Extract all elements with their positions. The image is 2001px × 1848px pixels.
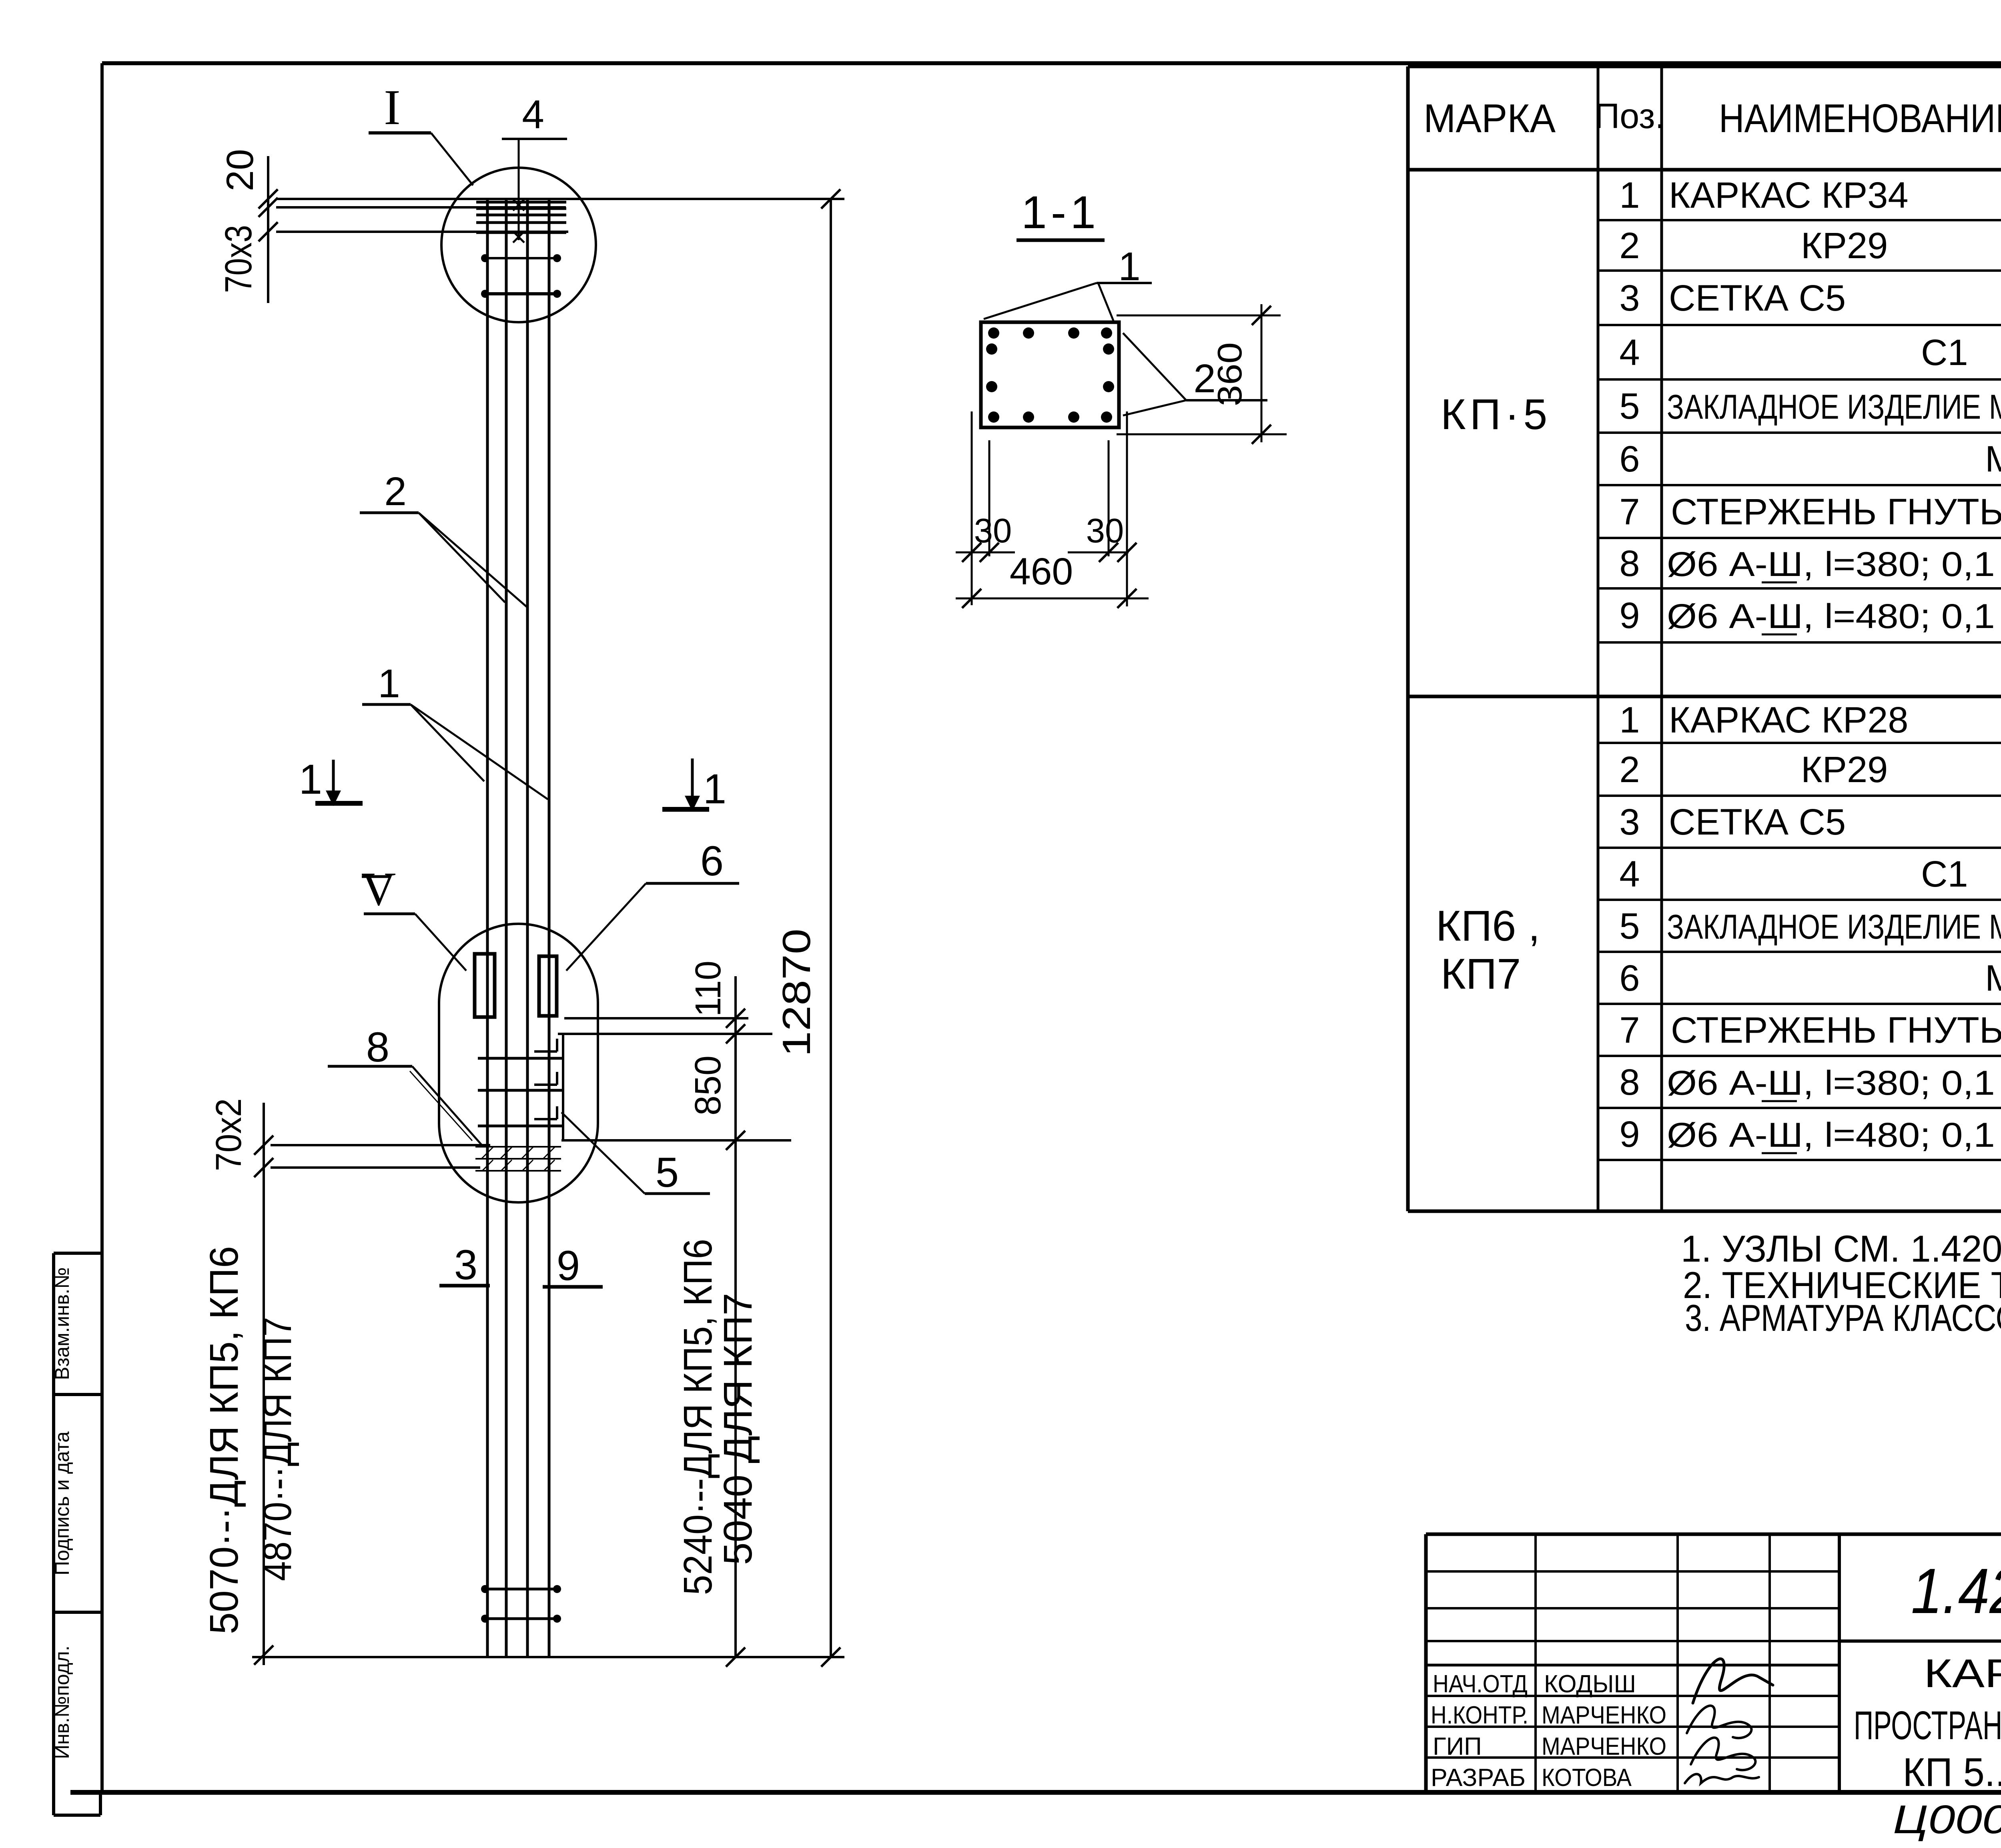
svg-text:1. УЗЛЫ СМ. 1.420.1-32.2-2У: 1. УЗЛЫ СМ. 1.420.1-32.2-2У: [1681, 1228, 2001, 1270]
svg-text:I: I: [384, 80, 401, 135]
svg-text:СЕТКА С5: СЕТКА С5: [1669, 278, 1846, 319]
svg-text:С1: С1: [1921, 332, 1968, 373]
svg-text:МАРЧЕНКО: МАРЧЕНКО: [1542, 1702, 1666, 1729]
svg-text:КП 5... КП 7: КП 5... КП 7: [1903, 1750, 2001, 1795]
svg-text:850: 850: [688, 1055, 728, 1116]
svg-text:V: V: [361, 862, 396, 915]
svg-text:3. АРМАТУРА КЛАССОВ А-Ш,А-I ПО: 3. АРМАТУРА КЛАССОВ А-Ш,А-I ПО ГОСТ 5781…: [1685, 1297, 2001, 1339]
svg-text:МАРЧЕНКО: МАРЧЕНКО: [1542, 1733, 1666, 1760]
svg-text:4: 4: [1619, 332, 1640, 373]
svg-text:30: 30: [1086, 512, 1124, 550]
svg-text:КР29: КР29: [1801, 749, 1888, 790]
svg-text:20: 20: [219, 149, 261, 191]
svg-text:Поз.: Поз.: [1594, 96, 1665, 136]
svg-text:5240·--ДЛЯ КП5, КП6: 5240·--ДЛЯ КП5, КП6: [676, 1239, 720, 1595]
svg-text:460: 460: [1010, 550, 1073, 593]
svg-text:3: 3: [1619, 802, 1640, 843]
svg-text:КАРКАС: КАРКАС: [1924, 1651, 2001, 1696]
svg-text:Ø6 А-Ш, l=380; 0,1 КГ: Ø6 А-Ш, l=380; 0,1 КГ: [1667, 1064, 2001, 1102]
svg-text:Подпись и дата: Подпись и дата: [51, 1431, 73, 1575]
svg-text:9: 9: [1619, 595, 1640, 636]
svg-text:КАРКАС КР28: КАРКАС КР28: [1669, 700, 1909, 740]
svg-text:РАЗРАБ: РАЗРАБ: [1431, 1764, 1526, 1792]
svg-text:СТЕРЖЕНЬ ГНУТЫЙ: СТЕРЖЕНЬ ГНУТЫЙ: [1671, 491, 2001, 532]
svg-text:КП6 ,: КП6 ,: [1436, 901, 1540, 950]
svg-text:4: 4: [1619, 854, 1640, 895]
svg-text:КОТОВА: КОТОВА: [1542, 1764, 1632, 1792]
svg-text:ЗАКЛАДНОЕ ИЗДЕЛИЕ МН6: ЗАКЛАДНОЕ ИЗДЕЛИЕ МН6: [1667, 388, 2001, 426]
svg-text:70x3: 70x3: [217, 225, 260, 293]
svg-text:Ц00071-02: Ц00071-02: [1893, 1797, 2001, 1842]
svg-text:9: 9: [1619, 1114, 1640, 1155]
svg-text:70x2: 70x2: [209, 1098, 249, 1171]
svg-text:Инв.№подл.: Инв.№подл.: [51, 1645, 73, 1759]
svg-text:6: 6: [1619, 439, 1640, 480]
svg-text:1: 1: [378, 661, 400, 706]
svg-text:СТЕРЖЕНЬ ГНУТЫЙ: СТЕРЖЕНЬ ГНУТЫЙ: [1671, 1009, 2001, 1051]
svg-text:5: 5: [656, 1149, 679, 1196]
svg-text:Взам.инв.№: Взам.инв.№: [51, 1267, 73, 1380]
svg-text:МАРКА: МАРКА: [1424, 96, 1556, 141]
svg-text:30: 30: [974, 512, 1012, 550]
svg-text:МН32: МН32: [1985, 439, 2001, 480]
svg-text:Ø6 А-Ш, l=380; 0,1 КГ: Ø6 А-Ш, l=380; 0,1 КГ: [1667, 545, 2001, 584]
svg-text:С1: С1: [1921, 854, 1968, 895]
svg-text:7: 7: [1619, 492, 1640, 532]
svg-text:1: 1: [1619, 175, 1640, 216]
svg-text:1-1: 1-1: [1021, 187, 1100, 238]
svg-text:3: 3: [454, 1242, 477, 1288]
svg-text:8: 8: [366, 1024, 389, 1071]
svg-text:8: 8: [1619, 543, 1640, 584]
svg-text:2: 2: [1619, 749, 1640, 790]
svg-text:НАИМЕНОВАНИЕ: НАИМЕНОВАНИЕ: [1719, 96, 2001, 141]
svg-text:1.420.1-32. 2-2 - 03: 1.420.1-32. 2-2 - 03: [1911, 1555, 2001, 1627]
svg-text:4870·-·ДЛЯ КП7: 4870·-·ДЛЯ КП7: [255, 1317, 300, 1581]
svg-text:КП7: КП7: [1441, 949, 1521, 998]
svg-text:8: 8: [1619, 1062, 1640, 1103]
svg-text:ЗАКЛАДНОЕ ИЗДЕЛИЕ МН6: ЗАКЛАДНОЕ ИЗДЕЛИЕ МН6: [1667, 908, 2001, 946]
svg-text:3: 3: [1619, 278, 1640, 319]
svg-text:Ø6 А-Ш, l=480; 0,1 КГ: Ø6 А-Ш, l=480; 0,1 КГ: [1667, 597, 2001, 636]
svg-text:1: 1: [1619, 700, 1640, 740]
svg-text:5: 5: [1619, 386, 1640, 427]
svg-text:2: 2: [1619, 225, 1640, 266]
svg-text:КР29: КР29: [1801, 225, 1888, 266]
svg-text:Ø6 А-Ш, l=480; 0,1 КГ: Ø6 А-Ш, l=480; 0,1 КГ: [1667, 1116, 2001, 1154]
svg-text:МН32: МН32: [1985, 958, 2001, 999]
svg-text:КП·5: КП·5: [1441, 390, 1552, 438]
svg-text:1: 1: [299, 756, 322, 803]
svg-text:2: 2: [384, 469, 407, 514]
svg-text:6: 6: [1619, 958, 1640, 999]
svg-text:КОДЫШ: КОДЫШ: [1544, 1670, 1636, 1698]
svg-text:НАЧ.ОТД: НАЧ.ОТД: [1433, 1670, 1528, 1698]
svg-text:5070·-·ДЛЯ КП5, КП6: 5070·-·ДЛЯ КП5, КП6: [202, 1246, 247, 1634]
svg-text:9: 9: [557, 1242, 580, 1289]
svg-text:КАРКАС КР34: КАРКАС КР34: [1669, 175, 1909, 216]
svg-text:7: 7: [1619, 1010, 1640, 1051]
svg-text:110: 110: [688, 961, 728, 1017]
svg-text:ГИП: ГИП: [1433, 1733, 1482, 1760]
svg-text:360: 360: [1211, 342, 1249, 406]
svg-text:12870: 12870: [774, 929, 818, 1057]
svg-text:6: 6: [700, 838, 724, 885]
svg-text:Н.КОНТР.: Н.КОНТР.: [1431, 1702, 1528, 1729]
svg-text:СЕТКА С5: СЕТКА С5: [1669, 802, 1846, 843]
svg-text:1: 1: [703, 766, 726, 813]
svg-text:5040 ДЛЯ КП7: 5040 ДЛЯ КП7: [716, 1293, 760, 1565]
svg-text:ПРОСТРАНСТВЕННЫЙ: ПРОСТРАНСТВЕННЫЙ: [1854, 1703, 2001, 1748]
svg-text:5: 5: [1619, 906, 1640, 947]
svg-text:4: 4: [522, 92, 544, 137]
